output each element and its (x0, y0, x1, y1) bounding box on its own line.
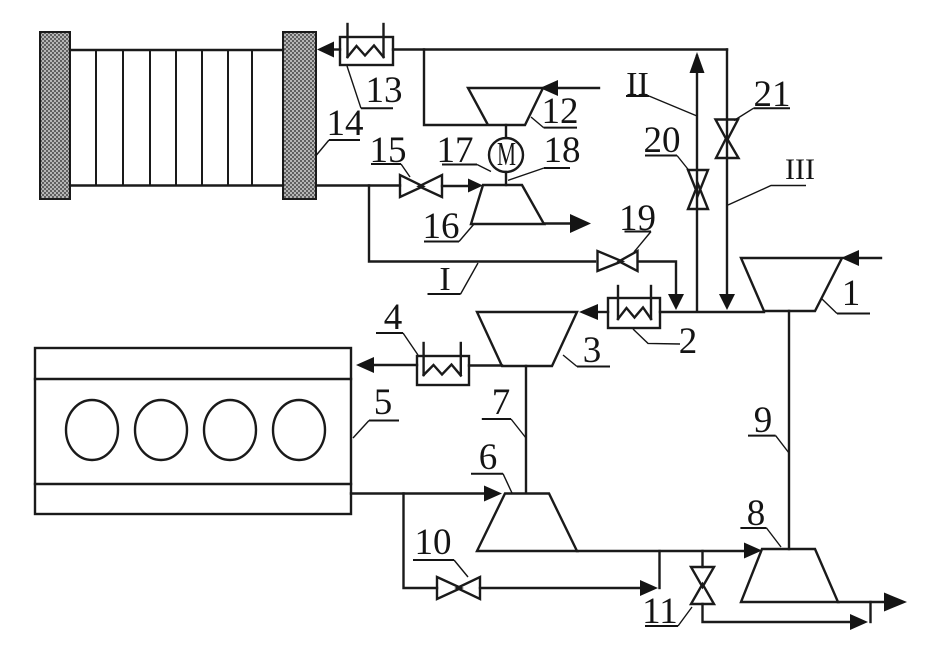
leader label 9 (748, 436, 789, 453)
wire: main junction line (597, 311, 608, 313)
svg-text:6: 6 (479, 437, 498, 478)
leader label 21 (734, 108, 790, 120)
leader node II (626, 96, 697, 116)
node III (785, 153, 815, 186)
leader label 11 (645, 607, 692, 626)
label 4 (384, 297, 403, 338)
svg-text:M: M (497, 136, 516, 173)
wire: line III vertical (726, 50, 728, 297)
wire: exchanger 4 to compressor 3 (469, 364, 502, 366)
arrow into turbine 16 (468, 179, 483, 193)
svg-text:2: 2 (679, 321, 698, 362)
svg-text:II: II (626, 66, 649, 103)
shaft compressor 12 to motor (505, 125, 507, 138)
wire: turbine 16 outlet (544, 222, 573, 224)
svg-text:5: 5 (374, 382, 393, 423)
label 19 (619, 198, 656, 239)
label 11 (642, 591, 678, 632)
arrow into turbine 6 (484, 486, 502, 502)
motor 17 (489, 136, 523, 173)
leader label 16 (424, 224, 474, 242)
svg-text:14: 14 (327, 103, 364, 144)
leader label 15 (371, 164, 410, 177)
label 10 (415, 522, 452, 563)
svg-text:7: 7 (492, 382, 511, 423)
wire: valve 10 to junction stub (480, 587, 642, 589)
arrow line II up (690, 52, 705, 73)
turbine 8 (741, 549, 838, 602)
label 5 (374, 382, 393, 423)
leader node I (428, 263, 479, 294)
heat exchanger 2 (608, 286, 660, 328)
arrow into turbine 8 (744, 543, 762, 559)
leader label 3 (563, 355, 610, 367)
leader node III (728, 186, 806, 206)
node I (439, 261, 450, 298)
label 2 (679, 321, 698, 362)
turbine 6 (477, 494, 577, 552)
label 16 (423, 206, 460, 247)
leader label 13 (347, 66, 393, 108)
label 1 (842, 273, 861, 314)
radiator 14 left header bar (40, 32, 70, 199)
wire: line II (696, 56, 698, 311)
wire: turbine 8 outlet (838, 601, 886, 603)
leader label 8 (740, 528, 781, 547)
wire: turbine 6 outlet to turbine 8 (577, 550, 746, 552)
arrow line I into main line (668, 294, 684, 310)
arrow valve 11 line (850, 614, 868, 630)
wire: compressor 12 air intake (556, 87, 599, 89)
node II (626, 66, 649, 103)
valve 15 (400, 175, 442, 197)
valve 10 (437, 577, 480, 599)
label 14 (327, 103, 364, 144)
label 17 (437, 130, 474, 171)
cooler 13 (340, 24, 393, 65)
arrow turbine 8 outlet (884, 593, 907, 612)
leader label 7 (482, 419, 526, 438)
wire: bypass branch down from engine exhaust (404, 494, 438, 589)
leader label 1 (822, 299, 870, 314)
wire: exchanger 4 to engine (374, 364, 417, 366)
valve 19 (598, 251, 638, 271)
label 18 (544, 130, 581, 171)
label 15 (370, 130, 407, 171)
label 9 (754, 400, 773, 441)
wire: engine exhaust to turbine 6 (351, 492, 484, 494)
leader label 17 (442, 165, 491, 172)
label 6 (479, 437, 498, 478)
leader label 5 (353, 421, 399, 439)
wire: valve 11 outlet (703, 604, 853, 622)
leader label 19 (625, 232, 652, 253)
radiator 14 top rail (70, 49, 283, 51)
wire: valve 11 branch (701, 551, 703, 567)
label 3 (583, 330, 602, 371)
wire: junction stub turbine 8 outlet (869, 602, 871, 622)
radiator 14 right header bar (283, 32, 316, 199)
leader label 14 (317, 140, 361, 155)
leader label 10 (413, 560, 468, 577)
wire: line 7 (525, 366, 527, 493)
arrow into compressor 3 (579, 304, 598, 320)
label 20 (644, 120, 681, 161)
arrow valve 10 line (640, 580, 658, 596)
arrow line III into main line (719, 294, 735, 310)
label underlines and leader lines (317, 66, 871, 626)
valve 11 (691, 567, 714, 604)
wire: drop from top line to compressor 12 inlet side (424, 50, 486, 126)
valve 21 (716, 120, 739, 159)
leader label 18 (508, 168, 570, 180)
svg-text:1: 1 (842, 273, 861, 314)
svg-text:I: I (439, 261, 450, 298)
compressor 12 (468, 88, 543, 125)
arrow turbine 16 outlet (570, 214, 591, 233)
arrow into engine (356, 357, 374, 373)
wire: junction stub to turbine 6 outlet line (658, 551, 660, 588)
shaft motor to turbine 16 (505, 172, 507, 185)
leader label 6 (471, 474, 512, 493)
wire: valve 15 to turbine 16 (442, 185, 470, 187)
wire: compressor 1 air intake (858, 257, 881, 259)
turbine 16 (471, 185, 544, 224)
radiator 14 tubes (96, 50, 252, 186)
engine 5 (35, 348, 351, 514)
radiator 14 bottom rail (70, 184, 283, 186)
wire: line 9 (788, 311, 790, 549)
svg-text:III: III (785, 153, 815, 186)
wire: top line from radiator to corner of line III (331, 48, 340, 50)
leader label 4 (376, 333, 418, 355)
wire: line I branch down from radiator line (369, 186, 595, 262)
arrow into compressor 12 (540, 80, 558, 96)
leader label 12 (531, 117, 577, 128)
svg-text:3: 3 (583, 330, 602, 371)
label 7 (492, 382, 511, 423)
leader label 2 (633, 329, 680, 344)
compressor 3 (477, 312, 577, 366)
svg-text:18: 18 (544, 130, 581, 171)
valve 20 (688, 170, 708, 209)
svg-text:12: 12 (542, 91, 579, 132)
leader label 20 (645, 156, 689, 171)
arrow into radiator (317, 42, 334, 58)
wire: valve 19 to junction (638, 262, 676, 297)
compressor 1 (741, 258, 842, 311)
arrow into compressor 1 (841, 250, 859, 266)
label 13 (366, 70, 403, 111)
svg-text:13: 13 (366, 70, 403, 111)
label 21 (754, 74, 791, 115)
wire: radiator bottom to valve 15 (316, 184, 400, 186)
heat exchanger 4 (417, 343, 469, 385)
svg-text:10: 10 (415, 522, 452, 563)
label 12 (542, 91, 579, 132)
label 8 (747, 493, 766, 534)
svg-text:4: 4 (384, 297, 403, 338)
